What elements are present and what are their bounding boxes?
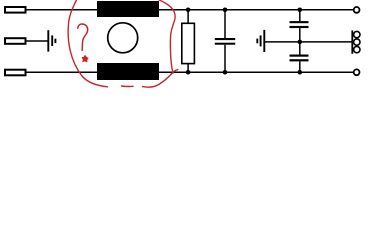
transformer T1 top winding block [97, 1, 159, 17]
annotation red circle (right arc) [158, 0, 176, 73]
wire bottom rail [159, 71, 353, 73]
resistor R1 bottom lead [187, 64, 189, 73]
junction dot top of C1 [223, 8, 228, 13]
annotation red question mark [78, 24, 88, 50]
junction dot bottom of R1 [186, 70, 191, 75]
transformer T1 core circle [108, 23, 138, 53]
ground GND2 [257, 30, 264, 52]
ground GND1 [48, 30, 55, 51]
capacitor C1 top lead [224, 10, 226, 38]
junction dot bottom of C1 [223, 70, 228, 75]
connector pin K4 [354, 46, 360, 52]
capacitor C2 bottom lead [299, 28, 301, 42]
wire P3 to transformer bottom [27, 71, 99, 73]
capacitor C2 top lead [299, 10, 301, 21]
junction dot middle rail C2/C3 [298, 40, 303, 45]
terminal pad P1 (top left) [5, 7, 26, 13]
wire middle rail GND2 to connector [265, 41, 352, 43]
wire P1 to transformer top [27, 9, 99, 11]
capacitor C1 bottom lead [224, 45, 226, 72]
capacitor C3 top lead [299, 42, 301, 55]
annotation red question mark dot [82, 56, 88, 62]
resistor R1 [182, 23, 195, 63]
capacitor C1 [215, 38, 235, 45]
capacitor C3 [290, 55, 309, 62]
junction dot top of C2 [298, 8, 303, 13]
junction dot top of R1 [186, 8, 191, 13]
annotation red circle bottom dash [122, 85, 134, 87]
transformer T1 bottom winding block [97, 63, 159, 80]
wire P2 to ground [27, 40, 49, 42]
annotation red circle around transformer (left arc) [68, 0, 107, 87]
capacitor C2 [290, 21, 309, 28]
connector pin K2 [354, 31, 360, 37]
connector pin K5 (bottom right) [354, 69, 360, 75]
connector pin K3 [354, 39, 360, 45]
junction dot bottom of C3 [298, 70, 303, 75]
wire top rail [159, 9, 353, 11]
connector middle bus bar [351, 30, 353, 53]
connector pin K1 (top right) [354, 7, 360, 13]
resistor R1 top lead [187, 10, 189, 23]
capacitor C3 bottom lead [299, 61, 301, 72]
terminal pad P2 (middle left) [5, 38, 26, 44]
annotation red circle closing tail (bottom right) [143, 70, 178, 87]
terminal pad P3 (bottom left) [5, 70, 26, 76]
